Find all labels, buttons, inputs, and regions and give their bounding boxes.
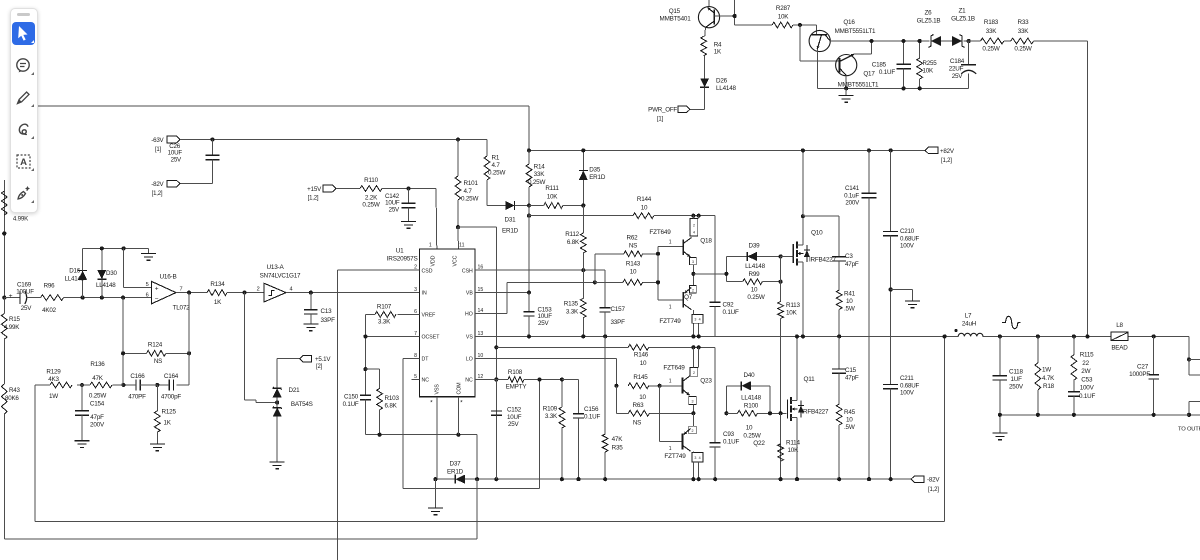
svg-text:100V: 100V: [900, 243, 915, 250]
svg-text:0.1UF: 0.1UF: [723, 439, 740, 446]
svg-text:BAT54S: BAT54S: [291, 401, 313, 408]
node R136/R129/C154: [80, 383, 84, 387]
wire clamp rail: [83, 246, 149, 250]
svg-text:R43: R43: [9, 387, 21, 394]
svg-text:22: 22: [1082, 360, 1089, 367]
svg-text:C166: C166: [130, 373, 145, 380]
svg-text:VS: VS: [466, 335, 473, 341]
wire outer loop: [4, 479, 477, 539]
svg-text:3.3K: 3.3K: [566, 308, 579, 315]
node Q11 source rail: [795, 477, 799, 481]
wire base col upper: [656, 246, 660, 300]
svg-text:1UF: 1UF: [1011, 376, 1023, 383]
svg-text:47K: 47K: [612, 436, 624, 443]
svg-text:6.8K: 6.8K: [385, 403, 398, 410]
node C210/C211 mid: [889, 287, 893, 291]
svg-text:33PF: 33PF: [321, 317, 336, 324]
svg-text:1K: 1K: [214, 299, 222, 306]
svg-text:R33: R33: [1018, 19, 1030, 26]
svg-text:C53: C53: [1081, 376, 1093, 383]
node VB/C153: [527, 290, 531, 294]
node +82V Q10: [801, 148, 805, 152]
resistor R41: [836, 290, 855, 336]
svg-text:4: 4: [290, 287, 293, 293]
svg-text:ER1D: ER1D: [589, 174, 606, 181]
diode D21 BAT54S lower: [273, 397, 282, 462]
svg-text:U13-A: U13-A: [266, 264, 284, 271]
svg-text:-63V: -63V: [151, 137, 164, 144]
wire D40 right col: [769, 386, 771, 414]
node VS R115: [1072, 334, 1076, 338]
node HO/R62/R143: [593, 280, 597, 284]
svg-text:0.1UF: 0.1UF: [584, 414, 601, 421]
node COM col rail: [475, 477, 479, 481]
resistor R135: [564, 270, 586, 336]
svg-text:1W: 1W: [49, 393, 58, 400]
svg-text:R62: R62: [627, 235, 639, 242]
wire output right: [1188, 336, 1190, 359]
svg-text:A: A: [20, 157, 27, 168]
svg-text:0.1UF: 0.1UF: [879, 69, 896, 76]
svg-text:C185: C185: [872, 62, 887, 69]
ground R125: [150, 444, 165, 451]
resistor R63 NS: [628, 402, 693, 427]
wire -63V rail: [180, 139, 487, 141]
transistor Q18 FZT649: [649, 216, 712, 265]
node Q7c b: [697, 334, 701, 338]
svg-text:FZT649: FZT649: [663, 365, 685, 372]
resistor R62 NS: [624, 235, 643, 257]
resistor R4: [701, 36, 722, 78]
capacitor C27: [1129, 336, 1159, 414]
wire VREF col: [364, 314, 366, 395]
wire inv input line: [64, 297, 152, 299]
node out stub bot: [1187, 413, 1191, 417]
svg-text:ER1D: ER1D: [447, 469, 464, 476]
ground C13: [303, 324, 318, 331]
svg-text:2: 2: [692, 288, 694, 292]
wire Q7 base lead: [658, 300, 683, 311]
svg-text:10: 10: [639, 394, 646, 401]
svg-text:Q18: Q18: [700, 238, 712, 245]
wire out stub1: [1189, 359, 1200, 375]
wire Q15 base col: [733, 0, 737, 25]
svg-text:0.1UF: 0.1UF: [343, 401, 359, 408]
svg-text:25V: 25V: [389, 206, 400, 213]
wire gnd rail q17: [817, 87, 968, 89]
wire NC5 stub: [411, 379, 419, 381]
svg-text:C3: C3: [845, 253, 853, 260]
svg-text:Q16: Q16: [843, 19, 855, 26]
svg-text:33PF: 33PF: [611, 319, 626, 326]
svg-text:+: +: [155, 286, 159, 293]
capacitor C154: [75, 385, 105, 441]
svg-text:4K02: 4K02: [42, 307, 56, 314]
net flag -82V (left): [151, 180, 180, 197]
svg-text:NS: NS: [154, 358, 162, 365]
capacitor C53: [1068, 376, 1096, 414]
node VB riser: [527, 214, 531, 218]
node Q18c a: [691, 214, 695, 218]
svg-text:3: 3: [414, 287, 417, 293]
svg-text:C27: C27: [1137, 364, 1149, 371]
svg-text:25V: 25V: [952, 73, 964, 80]
op-amp U1 IRS20957S: [387, 243, 484, 407]
wire feedback bottom: [35, 336, 944, 521]
svg-text:0.25W: 0.25W: [89, 393, 106, 400]
svg-text:NC: NC: [465, 378, 473, 384]
inductor L7 24uH: [955, 313, 984, 337]
svg-text:DT: DT: [422, 357, 430, 363]
node Q16c/Q17c: [869, 39, 873, 43]
svg-text:MMBT5551LT1: MMBT5551LT1: [838, 82, 879, 89]
svg-text:C13: C13: [321, 308, 333, 315]
diode D21 BAT54S upper: [273, 359, 313, 408]
svg-text:1000PF: 1000PF: [1129, 371, 1150, 378]
resistor R110: [360, 177, 382, 209]
svg-text:25V: 25V: [508, 421, 519, 428]
svg-text:25V: 25V: [538, 320, 549, 327]
op-amp U16-B TL072: [146, 274, 191, 312]
node C156 rail: [576, 477, 580, 481]
svg-text:−: −: [155, 295, 159, 302]
svg-text:4K3: 4K3: [48, 376, 59, 383]
svg-text:R146: R146: [634, 352, 649, 359]
wire R103 jog: [365, 369, 379, 388]
wire R110 to VDD: [382, 189, 437, 249]
svg-text:.5W: .5W: [844, 306, 855, 313]
svg-text:R99: R99: [749, 271, 761, 278]
capacitor C152: [491, 377, 522, 479]
node C26 tap: [210, 137, 214, 141]
node C185 bot: [902, 86, 906, 90]
capacitor C157: [600, 306, 626, 336]
node R145/Q23 base: [658, 384, 662, 388]
svg-text:47pF: 47pF: [90, 414, 104, 421]
wire CSD net: [338, 270, 420, 560]
node left col: [2, 231, 6, 235]
resistor R129: [45, 369, 72, 401]
node -63V/R101: [456, 137, 460, 141]
node D35/R111/R112: [581, 203, 585, 207]
svg-text:4: 4: [699, 456, 701, 460]
wire VCC buffer rail: [496, 346, 628, 348]
svg-text:2W: 2W: [1081, 368, 1090, 375]
node Q10 drain rail: [801, 214, 805, 218]
capacitor C185: [872, 41, 911, 88]
svg-text:0.25W: 0.25W: [488, 170, 505, 177]
node VREF/R103/C150: [363, 367, 367, 371]
svg-text:22UF: 22UF: [949, 66, 964, 73]
wire D21 link: [245, 293, 278, 403]
svg-text:C210: C210: [900, 228, 915, 235]
svg-text:IRFB4227: IRFB4227: [809, 257, 836, 264]
net flag -63V: [151, 136, 180, 153]
transistor Q7 FZT749: [659, 285, 703, 336]
svg-text:0.25W: 0.25W: [528, 179, 545, 186]
resistor R101: [455, 140, 478, 228]
svg-text:[2]: [2]: [316, 364, 323, 370]
svg-text:33K: 33K: [986, 28, 998, 35]
node R108/DT: [538, 377, 542, 381]
svg-text:10: 10: [846, 298, 853, 305]
node C93 rail: [713, 477, 717, 481]
wire left col top: [3, 180, 5, 298]
node fb tap: [121, 296, 125, 300]
capacitor C26: [168, 140, 220, 184]
wire VB rail right: [654, 216, 715, 302]
node C152 rail: [494, 477, 498, 481]
wire Q22 base lead: [660, 441, 683, 452]
wire VS rail: [475, 335, 1189, 337]
resistor R1: [484, 140, 505, 206]
node Z1/C184: [967, 39, 971, 43]
svg-text:6.8K: 6.8K: [567, 239, 580, 246]
svg-text:D21: D21: [289, 387, 301, 394]
node D40R100 left: [724, 411, 728, 415]
wire COM stub: [457, 397, 459, 435]
svg-text:C150: C150: [344, 394, 359, 401]
ground D21: [270, 462, 285, 469]
node VS C27: [1152, 334, 1156, 338]
svg-text:GLZ5.1B: GLZ5.1B: [917, 18, 941, 25]
svg-text:FZT749: FZT749: [664, 453, 686, 460]
svg-text:NS: NS: [633, 420, 641, 427]
wire Q16 emitter down: [816, 49, 818, 88]
node VCC: [456, 225, 460, 229]
wire Q18 base lead: [658, 240, 683, 247]
svg-text:R101: R101: [464, 180, 479, 187]
resistor R144: [633, 196, 654, 219]
capacitor C166: [123, 373, 157, 401]
node +82V C210: [889, 148, 893, 152]
resistor R96: [41, 283, 64, 315]
svg-text:ER1D: ER1D: [502, 228, 519, 235]
wire +in from rail: [124, 248, 152, 287]
svg-text:C156: C156: [584, 406, 599, 413]
wire Q23 base lead: [660, 379, 683, 386]
node C166/R136: [121, 383, 125, 387]
wire fb col: [122, 298, 124, 385]
svg-text:IRFB4227: IRFB4227: [802, 409, 829, 416]
wire VB net: [475, 292, 529, 294]
svg-text:D40: D40: [744, 372, 756, 379]
svg-text:2: 2: [693, 223, 695, 227]
svg-text:R108: R108: [508, 369, 523, 376]
svg-text:PWR_OFF: PWR_OFF: [648, 107, 677, 114]
node VCC/R146: [494, 345, 498, 349]
svg-text:U1: U1: [396, 248, 404, 255]
svg-text:LL4148: LL4148: [65, 276, 85, 283]
svg-text:3: 3: [694, 456, 696, 460]
wire Q17 base: [800, 25, 839, 61]
svg-text:Q17: Q17: [863, 71, 875, 78]
node C13 tap: [309, 291, 313, 295]
svg-text:Z6: Z6: [925, 10, 933, 17]
svg-text:33K: 33K: [1018, 28, 1030, 35]
wire out stub2: [1189, 402, 1200, 415]
svg-text:0.1UF: 0.1UF: [723, 309, 740, 316]
svg-text:25V: 25V: [21, 305, 32, 312]
svg-text:10: 10: [630, 269, 637, 276]
ground C118: [992, 415, 1007, 440]
svg-text:24uH: 24uH: [962, 321, 977, 328]
svg-text:R96: R96: [44, 283, 56, 290]
resistor R45: [836, 404, 855, 478]
svg-text:[1]: [1]: [155, 147, 162, 153]
svg-text:D26: D26: [716, 78, 728, 85]
resistor R14: [526, 150, 545, 205]
node Q17 emitter: [844, 86, 848, 90]
resistor R107: [365, 304, 419, 326]
svg-text:C92: C92: [723, 302, 735, 309]
svg-text:100V: 100V: [900, 390, 915, 397]
svg-text:4.7K: 4.7K: [1042, 375, 1055, 382]
node Q23c a: [691, 345, 695, 349]
diode D30 LL4148: [96, 248, 118, 299]
resistor R112: [565, 206, 586, 271]
node VSS rail: [433, 477, 437, 481]
label TO OUTPUT: [1178, 427, 1200, 433]
node bot C118: [998, 413, 1002, 417]
svg-text:[1,2]: [1,2]: [308, 196, 319, 202]
svg-text:C15: C15: [845, 367, 857, 374]
svg-text:100UF: 100UF: [16, 289, 34, 296]
svg-text:LL4148: LL4148: [745, 263, 766, 270]
svg-text:1K: 1K: [164, 420, 172, 427]
wire U16B out: [176, 292, 207, 294]
svg-text:R45: R45: [844, 409, 856, 416]
svg-text:R124: R124: [148, 342, 163, 349]
svg-text:+82V: +82V: [940, 148, 955, 155]
node Q23c b: [697, 345, 701, 349]
svg-text:1: 1: [669, 446, 672, 452]
svg-text:1: 1: [669, 379, 672, 385]
svg-text:FZT749: FZT749: [659, 318, 681, 325]
transistor Q10 IRFB4227: [793, 216, 836, 336]
svg-text:Q23: Q23: [700, 378, 712, 385]
svg-text:COM: COM: [457, 382, 463, 394]
svg-text:0.1UF: 0.1UF: [1079, 393, 1096, 400]
svg-text:C152: C152: [507, 407, 522, 414]
capacitor C15: [832, 336, 859, 404]
resistor R183: [964, 19, 1004, 53]
svg-text:R255: R255: [923, 60, 938, 67]
net flag +5.1V: [277, 355, 331, 370]
wire HO net: [475, 282, 595, 313]
wire Q10 drain net: [803, 150, 839, 256]
wire Q23 em: [692, 405, 694, 414]
svg-text:R287: R287: [776, 5, 791, 12]
ground clamp rail: [141, 248, 156, 260]
svg-text:4.7: 4.7: [492, 162, 501, 169]
svg-text:Q11: Q11: [804, 376, 816, 383]
wire emitter to D39 pair: [693, 273, 726, 275]
wire R134 to U13A: [227, 292, 264, 294]
transistor Q22 FZT749: [664, 413, 765, 477]
svg-text:Q10: Q10: [811, 230, 823, 237]
svg-text:2: 2: [692, 429, 694, 433]
svg-text:4.99K: 4.99K: [13, 216, 29, 223]
svg-text:Q7: Q7: [684, 294, 693, 301]
wire Q18 emitter col: [692, 265, 694, 286]
svg-text:VDD: VDD: [431, 255, 437, 266]
svg-text:R63: R63: [633, 402, 645, 409]
svg-text:0.25W: 0.25W: [461, 195, 478, 202]
node +82V C141: [867, 148, 871, 152]
svg-text:10: 10: [846, 417, 853, 424]
wire base col lower: [659, 386, 661, 442]
wire top feed to CSD-area column: [38, 106, 529, 151]
svg-text:TL072: TL072: [173, 305, 191, 312]
svg-text:OCSET: OCSET: [422, 335, 441, 341]
node bot R18: [1036, 413, 1040, 417]
resistor R287: [772, 5, 793, 28]
svg-text:10: 10: [746, 425, 753, 432]
diode D39 LL4148: [726, 243, 780, 271]
svg-text:C169: C169: [17, 282, 32, 289]
svg-text:C164: C164: [164, 373, 179, 380]
diode D40 LL4148: [741, 372, 770, 402]
svg-text:2: 2: [693, 371, 695, 375]
svg-text:2: 2: [257, 287, 260, 293]
node R124 left: [121, 351, 125, 355]
wire -82V rail: [435, 478, 911, 480]
svg-text:3: 3: [692, 400, 694, 404]
transistor Q15 MMBT5401: [660, 0, 735, 36]
svg-text:10: 10: [751, 287, 758, 294]
transistor Q11 IRFB4227: [788, 336, 829, 477]
node R35 rail: [603, 477, 607, 481]
svg-text:80K6: 80K6: [5, 395, 19, 402]
svg-text:FZT649: FZT649: [649, 229, 671, 236]
capacitor C150: [343, 394, 371, 435]
capacitor C142: [385, 189, 416, 222]
resistor R146: [628, 344, 715, 367]
node VS R135: [581, 334, 585, 338]
node bot C53: [1072, 413, 1076, 417]
capacitor C92: [710, 302, 739, 337]
svg-text:6: 6: [146, 292, 149, 298]
node C211 rail: [889, 477, 893, 481]
svg-text:LL4148: LL4148: [716, 85, 737, 92]
svg-text:R143: R143: [626, 261, 641, 268]
svg-text:R112: R112: [565, 231, 579, 238]
node VS R18: [1036, 334, 1040, 338]
svg-text:100V: 100V: [1080, 385, 1095, 392]
svg-text:10: 10: [641, 205, 648, 212]
resistor R109: [543, 380, 565, 480]
diode D26 LL4148: [700, 78, 736, 110]
node emitters lower: [691, 411, 695, 415]
node +82V/D35: [581, 148, 585, 152]
wire Q16 collector: [830, 40, 929, 42]
node R109 rail: [560, 477, 564, 481]
node VS switch: [801, 334, 805, 338]
ground C154: [75, 441, 90, 448]
wire R62 riser: [595, 254, 624, 283]
svg-text:R107: R107: [377, 304, 392, 311]
svg-text:0.25W: 0.25W: [743, 433, 760, 440]
wire to R287: [735, 24, 772, 26]
svg-text:C118: C118: [1009, 369, 1023, 376]
svg-text:10K: 10K: [923, 68, 934, 75]
wire D40 pair: [726, 386, 741, 414]
svg-text:3.3K: 3.3K: [378, 319, 391, 326]
wire OCSET: [363, 334, 419, 338]
resistor R125: [154, 385, 176, 444]
svg-text:5: 5: [146, 282, 149, 288]
